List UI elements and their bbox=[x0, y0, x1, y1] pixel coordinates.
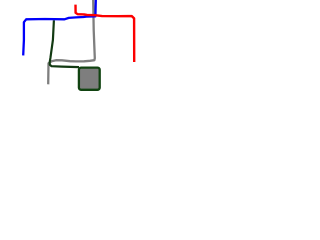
wire blue track bbox=[23, 0, 96, 55]
wire green track bbox=[50, 20, 79, 67]
wire red track bbox=[76, 5, 135, 62]
node building square bbox=[79, 68, 100, 90]
wire gray road polyline bbox=[48, 0, 95, 84]
